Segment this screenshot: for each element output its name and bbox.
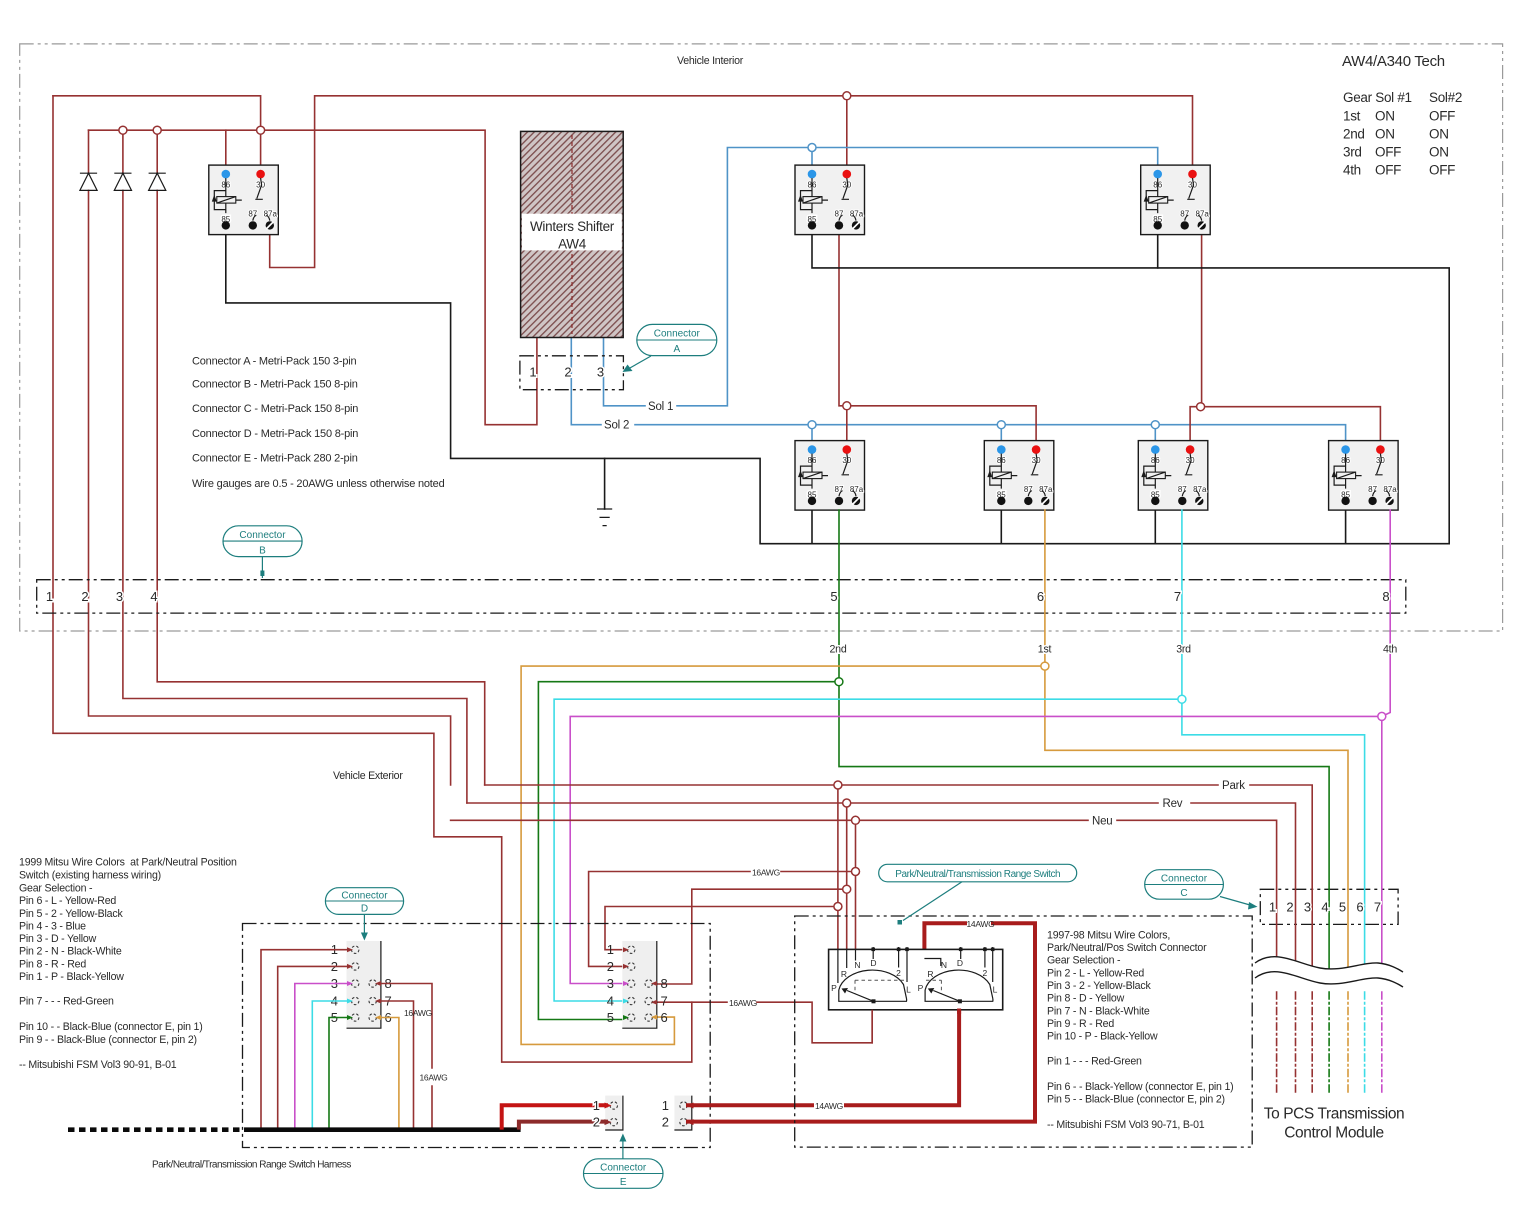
connector E right pin hooks: [680, 1102, 687, 1126]
svg-text:Sol 2: Sol 2: [604, 420, 629, 432]
wire: relay K4-K7 85 drops: [812, 510, 1346, 544]
wire: gear 3rd (cyan) relay K6 87 to connector C pin 6: [1182, 510, 1365, 889]
svg-text:4: 4: [1321, 900, 1328, 915]
wire: relay K1 87a to ignition bus right segment: [270, 96, 1193, 268]
switch terminal stubs left rotor: [838, 947, 909, 983]
svg-text:D: D: [957, 958, 963, 968]
connector D left pin numbers: [331, 942, 392, 1025]
svg-text:A: A: [673, 344, 680, 355]
svg-text:5: 5: [1339, 900, 1346, 915]
svg-text:1st: 1st: [1343, 109, 1361, 124]
svg-text:1: 1: [529, 365, 536, 380]
svg-text:OFF: OFF: [1375, 145, 1401, 160]
wire: cyan branch to connector D pin 4: [554, 699, 1182, 1001]
svg-text:Pin 4 - 3 - Blue: Pin 4 - 3 - Blue: [19, 921, 86, 933]
wire: Rev line to connector C pin 2: [467, 803, 1296, 889]
connector E left block: [605, 1096, 623, 1130]
svg-text:OFF: OFF: [1429, 109, 1455, 124]
svg-text:Switch (existing harness wirin: Switch (existing harness wiring): [19, 870, 161, 882]
wires: connector C pins through box to break: [1277, 889, 1382, 970]
svg-text:1: 1: [593, 1098, 600, 1113]
arrowheads at D-left pins: [347, 947, 381, 1020]
Winters Shifter AW4 box: [521, 131, 624, 337]
switch terminal stubs right rotor: [959, 947, 995, 982]
svg-text:7: 7: [1174, 589, 1181, 604]
relay K2: [795, 165, 865, 235]
connector D bubble: [325, 888, 403, 941]
connector A dashed box: [520, 356, 624, 390]
wires: below break dash-dot to PCS module: [1277, 992, 1382, 1092]
connector E right block: [674, 1096, 691, 1130]
svg-text:R: R: [927, 969, 933, 979]
svg-text:Park: Park: [1222, 780, 1245, 792]
wire: ground bus (black): [226, 235, 1449, 544]
wire: D-left pin 8 to harness (dark red 16AWG): [380, 984, 432, 1130]
wire: battery feed bus (dark red, top left): [53, 96, 261, 130]
wire: relay K2 30 drop: [846, 96, 848, 170]
svg-text:N: N: [941, 960, 947, 970]
switch terminal link right rotor: [924, 959, 940, 967]
wire: harness to D-left pin 5 (green): [329, 1018, 348, 1130]
svg-text:Winters Shifter: Winters Shifter: [530, 219, 615, 234]
svg-text:Wire gauges are 0.5 - 20AWG un: Wire gauges are 0.5 - 20AWG unless other…: [192, 478, 445, 490]
left rotor arc: [839, 970, 907, 1003]
svg-text:3rd: 3rd: [1343, 145, 1362, 160]
svg-text:To PCS Transmission: To PCS Transmission: [1264, 1106, 1405, 1123]
svg-text:Pin 1 - - - Red-Green: Pin 1 - - - Red-Green: [1047, 1056, 1142, 1068]
connector E bubble: [584, 1134, 664, 1189]
wire: D-left pin 6 to harness (orange): [380, 1018, 399, 1130]
park/neutral switch outline box: [829, 949, 1003, 1009]
wire: right pivot drop thick to 14AWG line: [957, 1011, 961, 1013]
ground symbol: [597, 458, 612, 525]
svg-text:Pin 8 - R - Red: Pin 8 - R - Red: [19, 959, 86, 971]
svg-text:Connector D - Metri-Pack 150 8: Connector D - Metri-Pack 150 8-pin: [192, 428, 358, 440]
arrowheads at E-right pins: [687, 1103, 694, 1109]
wire: Sol2 solenoid drive (relay K3 87a to K6,K7 30): [1190, 235, 1380, 444]
connector D left block: [347, 941, 381, 1028]
wire: gear 4th (magenta) relay K7 87a to connector C pin 7: [1382, 510, 1390, 889]
svg-text:Connector A - Metri-Pack 150 3: Connector A - Metri-Pack 150 3-pin: [192, 356, 356, 368]
svg-text:B: B: [259, 546, 266, 557]
svg-text:Connector: Connector: [654, 329, 701, 340]
relay K1: [209, 165, 278, 235]
connector D right block: [622, 941, 657, 1028]
wire: orange branch to connector D pin 6: [521, 666, 1045, 1044]
wire: Park vertical to switch P terminal: [837, 785, 839, 952]
diode D2: [114, 173, 131, 190]
svg-text:N: N: [854, 960, 860, 970]
wire: magenta branch to connector D pin 3: [570, 716, 1382, 983]
svg-text:3rd: 3rd: [1176, 643, 1191, 655]
svg-text:Gear Sol #1: Gear Sol #1: [1343, 90, 1412, 105]
svg-text:E: E: [620, 1177, 627, 1188]
connector E left pin hooks: [610, 1102, 617, 1126]
wire: gear 2nd (green) relay K4 87 to connector C pin 4: [839, 510, 1329, 889]
harness dashed box (left): [243, 924, 711, 1148]
svg-text:D: D: [870, 958, 876, 968]
svg-text:2: 2: [593, 1115, 600, 1130]
park/neutral switch bubble: [879, 864, 1077, 924]
relay K6: [1138, 441, 1208, 511]
connector A label bubble: [623, 324, 717, 372]
wire: 14AWG thick red E-right pin2 to switch N terminal: [688, 923, 1035, 1121]
connector C pin numbers: [1269, 900, 1381, 915]
svg-text:P: P: [831, 983, 837, 993]
svg-text:14AWG: 14AWG: [967, 919, 995, 929]
svg-text:Vehicle Interior: Vehicle Interior: [677, 55, 744, 67]
svg-text:14AWG: 14AWG: [815, 1101, 843, 1111]
relay K7: [1329, 441, 1399, 511]
connector D right pin hooks: [628, 946, 653, 1021]
svg-text:4th: 4th: [1383, 643, 1397, 655]
svg-text:D: D: [361, 904, 368, 915]
wire: diode D1 branch to connector B pin 2: [89, 130, 451, 785]
svg-text:L: L: [906, 985, 911, 995]
svg-text:Vehicle Exterior: Vehicle Exterior: [333, 770, 403, 782]
svg-text:Connector: Connector: [341, 891, 388, 902]
diode D3: [149, 173, 166, 190]
wire: Neu line to connector C pin 1: [451, 820, 1277, 889]
wire: thick dark red harness end to E-left pin 2: [519, 1122, 606, 1128]
svg-text:ON: ON: [1429, 145, 1449, 160]
svg-text:Pin 3 - 2 - Yellow-Black: Pin 3 - 2 - Yellow-Black: [1047, 980, 1151, 992]
right rotor position labels: [918, 958, 998, 995]
svg-text:1: 1: [607, 942, 614, 957]
svg-text:Park/Neutral/Transmission Rang: Park/Neutral/Transmission Range Switch: [895, 869, 1060, 880]
svg-text:OFF: OFF: [1429, 163, 1455, 178]
svg-text:1: 1: [1269, 900, 1276, 915]
svg-text:1: 1: [46, 589, 53, 604]
svg-text:Pin 3 - D - Yellow: Pin 3 - D - Yellow: [19, 933, 97, 945]
svg-text:Pin 7 - - - Red-Green: Pin 7 - - - Red-Green: [19, 996, 114, 1008]
svg-text:6: 6: [661, 1010, 668, 1025]
wire: harness to D-left pin 3 (magenta): [295, 984, 348, 1130]
svg-text:Gear Selection -: Gear Selection -: [19, 883, 93, 895]
connector B bubble: [223, 526, 302, 578]
1997-98 Mitsu wire colors text block: [1047, 930, 1234, 1132]
svg-text:5: 5: [830, 589, 837, 604]
svg-text:Connector C - Metri-Pack 150 8: Connector C - Metri-Pack 150 8-pin: [192, 403, 358, 415]
wire: D-left pin 7 to harness (dark red): [380, 1001, 414, 1130]
svg-text:Gear Selection -: Gear Selection -: [1047, 955, 1121, 967]
relay K3: [1141, 165, 1211, 235]
svg-text:Pin 2 - N - Black-White: Pin 2 - N - Black-White: [19, 946, 122, 958]
wire: connector D pin 7 to switch left pivot (16AWG): [654, 1002, 873, 1043]
svg-text:3: 3: [597, 365, 604, 380]
wire: relay K3 85 drop: [1157, 235, 1159, 268]
wire: thick red harness end to E-left pin 1: [502, 1105, 606, 1127]
svg-text:2: 2: [607, 959, 614, 974]
svg-text:L: L: [993, 985, 998, 995]
solenoid state table: [1343, 90, 1462, 178]
svg-text:-- Mitsubishi FSM Vol3 90-71,: -- Mitsubishi FSM Vol3 90-71, B-01: [1047, 1119, 1205, 1131]
svg-text:Pin 6 - L - Yellow-Red: Pin 6 - L - Yellow-Red: [19, 895, 116, 907]
wire: Sol 1 blue from connector A pin 3 to relays K2 K3 86: [604, 148, 1158, 406]
vehicle interior dash-dot border: [20, 44, 1503, 631]
wire: 16AWG Neu branch to connector D pin 2: [589, 872, 856, 967]
right rotor arc: [925, 970, 993, 1003]
wire: green branch to connector D pin 5: [538, 682, 839, 1020]
svg-text:R: R: [841, 969, 847, 979]
svg-text:6: 6: [1356, 900, 1363, 915]
svg-text:OFF: OFF: [1375, 163, 1401, 178]
svg-text:1999 Mitsu Wire Colors at Par: 1999 Mitsu Wire Colors at Park/Neutral P…: [19, 857, 237, 869]
relay K4: [795, 441, 865, 511]
svg-text:2: 2: [81, 589, 88, 604]
wire: relay K2 86 tap (blue): [811, 148, 813, 171]
svg-text:16AWG: 16AWG: [420, 1073, 448, 1083]
svg-text:1st: 1st: [1038, 643, 1052, 655]
svg-text:2: 2: [896, 968, 901, 978]
svg-text:Connector: Connector: [239, 530, 286, 541]
svg-text:Pin 5 - 2 - Yellow-Black: Pin 5 - 2 - Yellow-Black: [19, 908, 123, 920]
svg-text:Pin 9 - R - Red: Pin 9 - R - Red: [1047, 1018, 1114, 1030]
connector C dashed box: [1260, 889, 1398, 924]
svg-text:Connector E - Metri-Pack 280 2: Connector E - Metri-Pack 280 2-pin: [192, 453, 358, 465]
svg-text:Sol 1: Sol 1: [648, 401, 673, 413]
svg-text:ON: ON: [1375, 127, 1395, 142]
wire: ignition distribution line y=130 (dark red): [89, 130, 537, 425]
svg-text:3: 3: [116, 589, 123, 604]
diode D1: [80, 173, 97, 190]
wire: 16AWG Park branch to connector D pin 1: [605, 907, 838, 950]
wire: harness to D-left pin 4 (cyan): [312, 1001, 348, 1130]
svg-text:AW4/A340 Tech: AW4/A340 Tech: [1342, 53, 1445, 70]
wire: Park line (dark red) to connector C pin 3: [485, 785, 1312, 889]
connector C bubble: [1145, 870, 1258, 910]
wire: Rev vertical to switch R terminal: [846, 803, 848, 952]
svg-text:3: 3: [1304, 900, 1311, 915]
1999 Mitsu wire colors text block: [19, 857, 237, 1072]
svg-text:Pin 1 - P - Black-Yellow: Pin 1 - P - Black-Yellow: [19, 971, 124, 983]
switch harness dashed box (right): [795, 916, 1252, 1147]
svg-text:Pin 9 - - Black-Blue (connecto: Pin 9 - - Black-Blue (connector E, pin 2…: [19, 1034, 197, 1046]
cable break symbol (waves): [1255, 957, 1403, 987]
wire: harness to D-left pin 1 (dark red): [261, 950, 348, 1130]
svg-text:2nd: 2nd: [1343, 127, 1365, 142]
wire: Neu vertical to switch N terminal: [855, 820, 857, 952]
connector D left pin hooks: [352, 946, 377, 1021]
svg-text:Connector: Connector: [1161, 874, 1208, 885]
svg-text:Pin 7 - N - Black-White: Pin 7 - N - Black-White: [1047, 1006, 1150, 1018]
svg-text:Park/Neutral/Transmission Rang: Park/Neutral/Transmission Range Switch H…: [152, 1160, 351, 1171]
wire: relay K1 30 tap: [260, 130, 262, 170]
wire: gear 1st (orange) relay K5 87a to connector C pin 5: [1045, 510, 1348, 889]
harness thick black line: [245, 1127, 521, 1132]
svg-text:Pin 10 - P - Black-Yellow: Pin 10 - P - Black-Yellow: [1047, 1031, 1158, 1043]
wire: left pivot drop (dark red): [871, 1011, 873, 1043]
svg-text:7: 7: [661, 994, 668, 1009]
svg-text:7: 7: [1374, 900, 1381, 915]
svg-text:1: 1: [662, 1098, 669, 1113]
svg-text:2: 2: [983, 968, 988, 978]
svg-text:8: 8: [1382, 589, 1389, 604]
svg-text:Park/Neutral/Pos Switch Connec: Park/Neutral/Pos Switch Connector: [1047, 942, 1207, 954]
svg-text:16AWG: 16AWG: [729, 998, 757, 1008]
svg-text:16AWG: 16AWG: [404, 1008, 432, 1018]
connector D right pin numbers: [607, 942, 668, 1025]
wire: diode D3 branch to connector B pin 4: [157, 130, 485, 785]
svg-text:Rev: Rev: [1163, 798, 1183, 810]
node: ignition bus junctions: [119, 126, 127, 134]
wire: harness to D-left pin 2 (dark red): [278, 966, 348, 1129]
arrowheads at E-left pins: [605, 1103, 612, 1109]
svg-text:Neu: Neu: [1092, 815, 1113, 827]
svg-text:Connector: Connector: [600, 1163, 647, 1174]
svg-text:4: 4: [607, 994, 614, 1009]
wire: diode D2 branch to connector B pin 3: [123, 130, 467, 803]
svg-text:4: 4: [150, 589, 157, 604]
svg-text:2: 2: [662, 1115, 669, 1130]
wire: relay K1 86 tap: [225, 130, 227, 170]
svg-text:3: 3: [607, 976, 614, 991]
svg-text:Pin 5 - - Black-Blue (connecto: Pin 5 - - Black-Blue (connector E, pin 2…: [1047, 1094, 1225, 1106]
connector E pin number overpaint: [593, 1098, 669, 1130]
svg-text:Pin 8 - D - Yellow: Pin 8 - D - Yellow: [1047, 993, 1125, 1005]
wire: 16AWG Rev branch to connector D pin 8: [654, 889, 847, 984]
wire: connector B pin 1 run (dark red, battery): [53, 96, 692, 1062]
wire: Sol2 taps to 86 pins: [812, 425, 1155, 444]
svg-text:5: 5: [607, 1010, 614, 1025]
arrowheads at D-right pins: [623, 947, 657, 1020]
svg-text:AW4: AW4: [558, 237, 587, 252]
svg-text:2nd: 2nd: [830, 643, 847, 655]
svg-text:P: P: [918, 983, 924, 993]
svg-text:ON: ON: [1429, 127, 1449, 142]
svg-text:Sol#2: Sol#2: [1429, 90, 1462, 105]
svg-text:1997-98 Mitsu Wire Colors,: 1997-98 Mitsu Wire Colors,: [1047, 930, 1170, 942]
svg-text:8: 8: [661, 976, 668, 991]
wire: 14AWG thick red E-right pin1 to right switch pivot: [688, 1012, 959, 1105]
svg-text:Pin 6 - - Black-Yellow (connec: Pin 6 - - Black-Yellow (connector E, pin…: [1047, 1081, 1234, 1093]
svg-text:2: 2: [564, 365, 571, 380]
connector B dashed strip: [37, 580, 1406, 613]
svg-text:-- Mitsubishi FSM Vol3 90-91,: -- Mitsubishi FSM Vol3 90-91, B-01: [19, 1059, 177, 1071]
svg-text:Pin 2 - L - Yellow-Red: Pin 2 - L - Yellow-Red: [1047, 968, 1144, 980]
wire: Sol1 solenoid drive (relay K2 87 to K4,K5 30): [839, 235, 1036, 444]
left rotor position labels: [831, 958, 911, 995]
svg-text:ON: ON: [1375, 109, 1395, 124]
svg-text:Control Module: Control Module: [1284, 1125, 1384, 1142]
svg-text:2: 2: [1286, 900, 1293, 915]
svg-text:Connector B - Metri-Pack 150 8: Connector B - Metri-Pack 150 8-pin: [192, 378, 358, 390]
svg-text:4th: 4th: [1343, 163, 1361, 178]
svg-text:16AWG: 16AWG: [752, 867, 780, 877]
wire: Sol 2 blue from connector A pin 2 to relays K4-K7 86: [571, 338, 1345, 444]
relay K5: [984, 441, 1054, 511]
svg-text:6: 6: [1037, 589, 1044, 604]
svg-text:C: C: [1180, 888, 1187, 899]
svg-text:Pin 10 - - Black-Blue (connect: Pin 10 - - Black-Blue (connector E, pin …: [19, 1021, 203, 1033]
connector legend text: [192, 356, 445, 490]
